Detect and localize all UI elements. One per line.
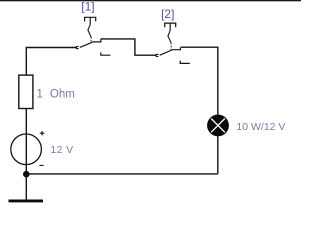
- svg-text:12 V: 12 V: [50, 144, 73, 156]
- svg-text:1: 1: [37, 88, 43, 100]
- svg-text:Ohm: Ohm: [50, 88, 75, 100]
- svg-text:[2]: [2]: [161, 7, 174, 21]
- svg-text:[1]: [1]: [81, 0, 94, 13]
- svg-text:10 W/12 V: 10 W/12 V: [236, 121, 285, 133]
